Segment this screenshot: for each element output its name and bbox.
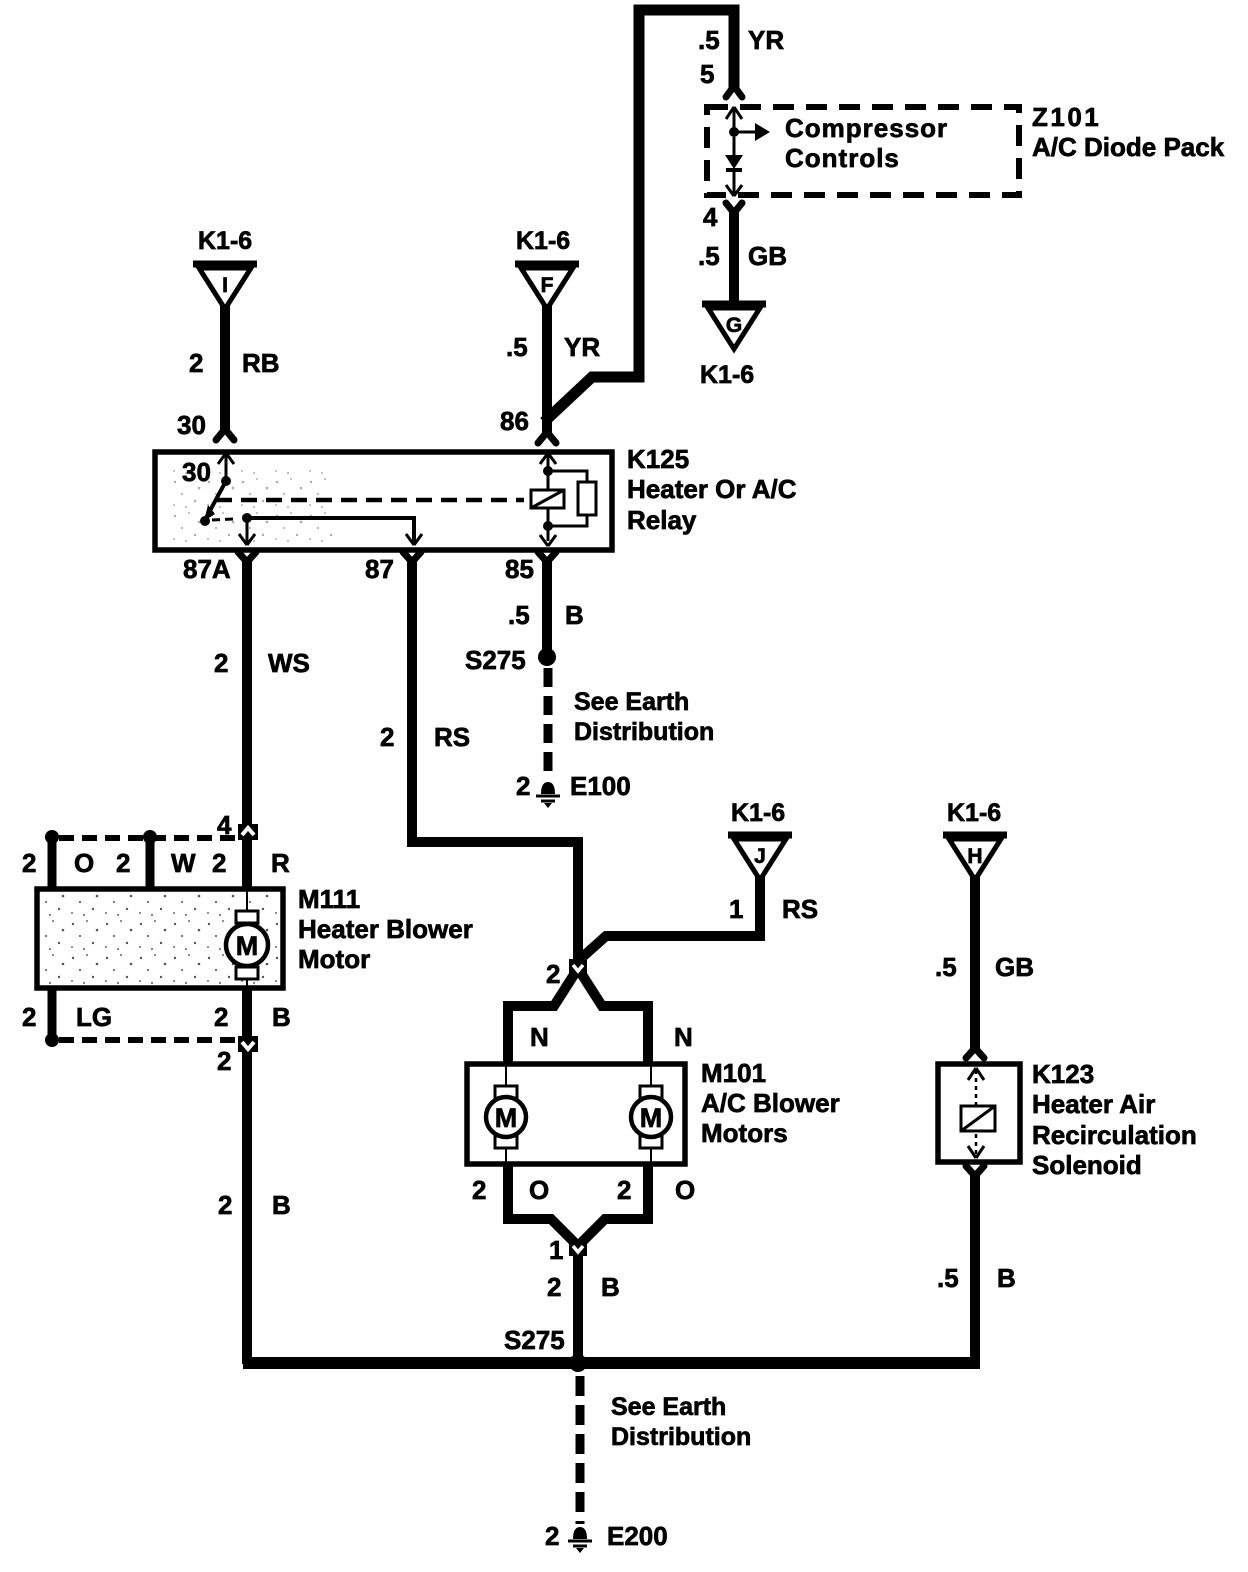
svg-text:Relay: Relay bbox=[627, 505, 697, 535]
svg-text:K1-6: K1-6 bbox=[700, 361, 754, 389]
svg-text:2: 2 bbox=[547, 1272, 561, 1302]
svg-text:I: I bbox=[222, 274, 228, 297]
svg-text:1: 1 bbox=[729, 894, 743, 924]
svg-text:W: W bbox=[171, 848, 196, 878]
svg-text:Motors: Motors bbox=[701, 1118, 788, 1148]
svg-text:O: O bbox=[74, 848, 94, 878]
svg-text:86: 86 bbox=[500, 406, 529, 436]
svg-text:R: R bbox=[271, 848, 290, 878]
svg-text:WS: WS bbox=[268, 648, 310, 678]
svg-text:2: 2 bbox=[516, 771, 530, 801]
svg-text:2: 2 bbox=[218, 1190, 232, 1220]
svg-text:2: 2 bbox=[22, 848, 36, 878]
svg-text:S275: S275 bbox=[504, 1325, 565, 1355]
svg-text:K1-6: K1-6 bbox=[731, 799, 785, 827]
svg-text:M101: M101 bbox=[701, 1058, 766, 1088]
svg-text:.5: .5 bbox=[935, 952, 957, 982]
svg-text:O: O bbox=[675, 1175, 695, 1205]
svg-text:Distribution: Distribution bbox=[611, 1423, 751, 1451]
svg-text:Compressor: Compressor bbox=[785, 113, 948, 143]
svg-text:See Earth: See Earth bbox=[574, 688, 689, 716]
svg-text:.5: .5 bbox=[508, 600, 530, 630]
svg-text:M: M bbox=[495, 1103, 518, 1133]
svg-text:4: 4 bbox=[703, 202, 718, 232]
svg-text:B: B bbox=[272, 1190, 291, 1220]
svg-text:RB: RB bbox=[242, 348, 280, 378]
svg-text:YR: YR bbox=[748, 25, 784, 55]
svg-text:.5: .5 bbox=[506, 332, 528, 362]
svg-text:Controls: Controls bbox=[785, 143, 900, 173]
svg-text:S275: S275 bbox=[465, 645, 526, 675]
svg-text:YR: YR bbox=[564, 332, 600, 362]
svg-text:30: 30 bbox=[182, 457, 211, 487]
svg-text:Heater Blower: Heater Blower bbox=[298, 914, 473, 944]
svg-text:N: N bbox=[674, 1022, 693, 1052]
svg-text:Z101: Z101 bbox=[1032, 102, 1101, 132]
svg-text:RS: RS bbox=[782, 894, 818, 924]
svg-text:F: F bbox=[541, 274, 554, 297]
svg-text:LG: LG bbox=[76, 1002, 112, 1032]
svg-text:M: M bbox=[236, 931, 259, 961]
svg-text:2: 2 bbox=[212, 848, 226, 878]
svg-text:G: G bbox=[726, 314, 742, 337]
svg-text:Heater Air: Heater Air bbox=[1032, 1089, 1155, 1119]
svg-text:2: 2 bbox=[189, 348, 203, 378]
svg-text:RS: RS bbox=[434, 722, 470, 752]
svg-text:2: 2 bbox=[380, 722, 394, 752]
svg-text:2: 2 bbox=[22, 1002, 36, 1032]
svg-text:B: B bbox=[997, 1263, 1016, 1293]
svg-text:B: B bbox=[601, 1272, 620, 1302]
svg-text:2: 2 bbox=[217, 1046, 231, 1076]
svg-text:O: O bbox=[529, 1175, 549, 1205]
svg-text:Recirculation: Recirculation bbox=[1032, 1120, 1197, 1150]
svg-text:J: J bbox=[754, 845, 766, 868]
svg-text:N: N bbox=[530, 1022, 549, 1052]
svg-text:B: B bbox=[272, 1002, 291, 1032]
svg-text:GB: GB bbox=[748, 241, 787, 271]
svg-text:Solenoid: Solenoid bbox=[1032, 1150, 1142, 1180]
svg-text:K1-6: K1-6 bbox=[516, 227, 570, 255]
svg-text:85: 85 bbox=[505, 554, 534, 584]
svg-text:K1-6: K1-6 bbox=[947, 799, 1001, 827]
svg-text:GB: GB bbox=[995, 952, 1034, 982]
svg-text:E200: E200 bbox=[607, 1521, 668, 1551]
svg-text:A/C Blower: A/C Blower bbox=[701, 1088, 840, 1118]
svg-text:M111: M111 bbox=[298, 884, 360, 914]
svg-text:2: 2 bbox=[214, 1002, 228, 1032]
svg-text:.5: .5 bbox=[698, 25, 720, 55]
svg-text:87A: 87A bbox=[183, 554, 231, 584]
svg-text:5: 5 bbox=[700, 59, 714, 89]
svg-text:Motor: Motor bbox=[298, 944, 370, 974]
svg-text:See Earth: See Earth bbox=[611, 1393, 726, 1421]
svg-text:.5: .5 bbox=[937, 1263, 959, 1293]
svg-text:H: H bbox=[967, 845, 982, 868]
svg-text:2: 2 bbox=[546, 959, 560, 989]
svg-text:Distribution: Distribution bbox=[574, 718, 714, 746]
svg-text:K1-6: K1-6 bbox=[198, 227, 252, 255]
svg-text:2: 2 bbox=[472, 1175, 486, 1205]
svg-text:30: 30 bbox=[177, 410, 206, 440]
svg-text:2: 2 bbox=[545, 1521, 559, 1551]
svg-text:M: M bbox=[640, 1103, 663, 1133]
svg-text:B: B bbox=[565, 600, 584, 630]
svg-text:2: 2 bbox=[214, 648, 228, 678]
svg-text:E100: E100 bbox=[570, 771, 631, 801]
svg-text:4: 4 bbox=[217, 810, 232, 840]
svg-text:.5: .5 bbox=[698, 241, 720, 271]
svg-text:K123: K123 bbox=[1032, 1059, 1094, 1089]
svg-text:Heater Or A/C: Heater Or A/C bbox=[627, 474, 797, 504]
svg-text:2: 2 bbox=[617, 1175, 631, 1205]
svg-text:2: 2 bbox=[116, 848, 130, 878]
svg-text:K125: K125 bbox=[627, 444, 689, 474]
svg-text:A/C Diode Pack: A/C Diode Pack bbox=[1032, 132, 1225, 162]
svg-text:87: 87 bbox=[365, 554, 394, 584]
svg-text:1: 1 bbox=[549, 1235, 563, 1265]
